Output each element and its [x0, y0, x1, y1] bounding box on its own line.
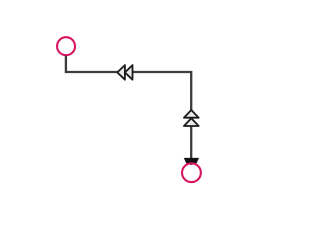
- wire: left component to top-right corner then down: [132, 72, 191, 110]
- port P2 (bottom terminal circle): [182, 163, 201, 182]
- double-triangle component X1 (left-pointing chevrons), triangle 1: [117, 65, 125, 80]
- double-triangle component X2, triangle 2: [184, 118, 199, 126]
- port P1 (top-left terminal circle): [57, 37, 75, 55]
- wire: right branch between components: [190, 126, 192, 159]
- arrowhead (black, pointing down onto port P2): [184, 158, 199, 165]
- wire: P1 down then right to left component: [66, 56, 118, 72]
- double-triangle component X1, triangle 2: [125, 65, 133, 80]
- double-triangle component X2 (up-pointing chevrons), triangle 1: [184, 110, 199, 118]
